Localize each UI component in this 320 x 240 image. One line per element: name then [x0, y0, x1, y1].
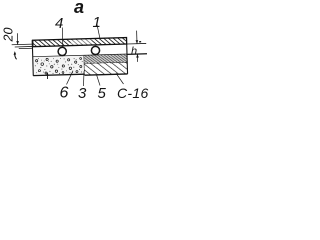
svg-text:20: 20 — [2, 28, 16, 43]
svg-text:4: 4 — [55, 15, 63, 32]
svg-text:C-16: C-16 — [117, 85, 149, 100]
svg-text:h: h — [131, 46, 137, 58]
svg-text:6: 6 — [60, 85, 69, 101]
svg-text:5: 5 — [98, 85, 107, 100]
svg-text:1: 1 — [93, 14, 101, 31]
svg-text:3: 3 — [78, 85, 87, 100]
svg-text:a: a — [74, 0, 84, 17]
